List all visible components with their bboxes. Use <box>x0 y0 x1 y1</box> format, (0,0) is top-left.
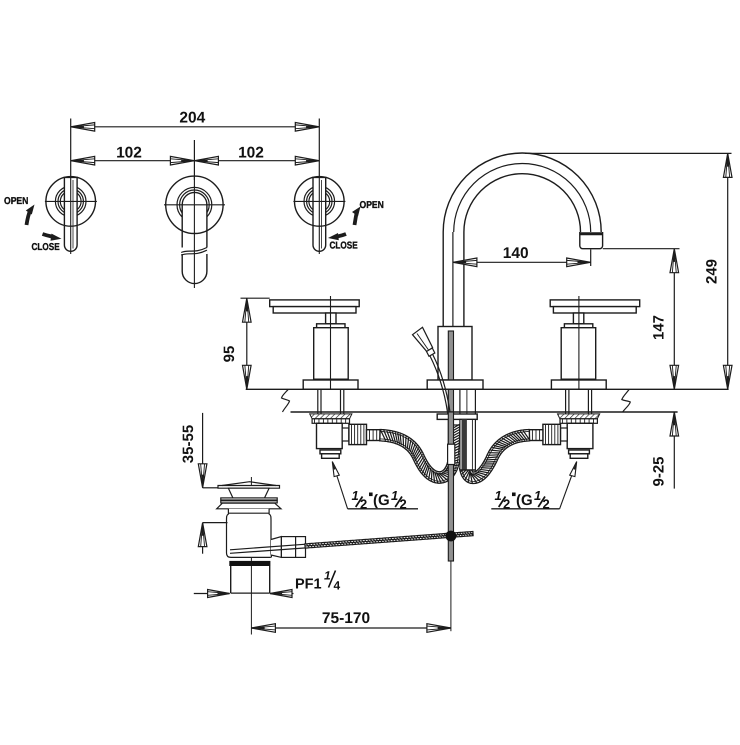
left handle body front <box>314 328 349 380</box>
lift rod <box>430 356 450 444</box>
spout riser lines inside body <box>442 327 444 381</box>
svg-text:4: 4 <box>334 579 341 593</box>
right handle stem front <box>573 313 583 324</box>
left handle valve rings top view <box>55 186 86 217</box>
dimension line 102 left <box>71 160 195 162</box>
right supply hose braided <box>460 430 530 484</box>
deck break right <box>622 389 631 412</box>
spout centerlines top view <box>164 204 225 206</box>
drain centerline <box>250 477 252 635</box>
svg-text:95: 95 <box>221 346 238 363</box>
countertop deck top line <box>246 388 729 390</box>
svg-text:OPEN: OPEN <box>360 200 384 211</box>
close arrow left <box>43 234 54 237</box>
svg-text:1: 1 <box>352 488 359 503</box>
dimension PF1 1/4 arrows <box>194 593 230 595</box>
right handle flange front <box>551 380 606 389</box>
svg-text:147: 147 <box>651 315 668 340</box>
right handle cross bar front <box>550 300 640 307</box>
dimension line 147 <box>673 249 675 390</box>
pull rod lower <box>448 412 453 561</box>
svg-text:102: 102 <box>116 145 142 162</box>
spout escutcheon top view <box>166 176 223 233</box>
left valve body <box>317 423 343 448</box>
spout outlet aerator <box>580 232 603 249</box>
right valve body <box>567 423 593 448</box>
left handle lever top view <box>64 177 77 251</box>
spout gooseneck outer arc <box>443 153 601 232</box>
right valve bottom nut <box>569 450 590 454</box>
dimension line 35-55 <box>202 413 204 486</box>
right handle lever top view <box>313 177 326 251</box>
svg-text:2: 2 <box>360 497 367 512</box>
left locknut ribs <box>312 419 349 424</box>
drain lever rod braided <box>305 532 473 549</box>
center shank through deck <box>459 389 461 414</box>
right handle escutcheon top view <box>295 177 345 227</box>
svg-text:OPEN: OPEN <box>4 196 28 207</box>
dimension line 9-25 <box>673 412 675 489</box>
svg-text:2: 2 <box>543 497 550 512</box>
left shank through deck <box>317 389 319 414</box>
svg-text:1: 1 <box>495 488 502 503</box>
right shank through deck <box>591 389 593 414</box>
close arrow right <box>337 234 347 237</box>
svg-text:CLOSE: CLOSE <box>32 242 61 253</box>
lift rod knob <box>413 327 433 352</box>
right handle collar front <box>564 324 592 328</box>
dimension line 140 <box>453 261 591 263</box>
right handle valve rings top view <box>304 186 335 217</box>
dimension line 102 right <box>194 160 319 162</box>
svg-text:9-25: 9-25 <box>651 456 668 486</box>
drain lever rod inside body <box>230 544 306 550</box>
left compression nut ribbed <box>349 424 367 444</box>
center extension line <box>193 140 195 180</box>
pull rod upper <box>448 331 453 444</box>
left locknut hatched <box>310 414 352 419</box>
extension line spout top <box>525 152 732 154</box>
center locknut below deck <box>437 414 477 419</box>
extension line outlet bottom <box>603 248 680 250</box>
pull rod centerline extension <box>450 561 452 631</box>
center supply shank <box>460 419 476 470</box>
left handle centerline <box>330 296 332 390</box>
svg-text:CLOSE: CLOSE <box>330 241 359 252</box>
right locknut hatched <box>558 414 600 419</box>
left compression fitting neck <box>342 428 349 441</box>
right locknut ribs <box>560 419 597 424</box>
spout valve rings top view <box>177 187 212 222</box>
extension line 95 top <box>241 297 270 299</box>
dimension line 249 <box>727 153 729 389</box>
right handle centerlines <box>293 200 345 202</box>
svg-text:102: 102 <box>238 145 264 162</box>
svg-text:75-170: 75-170 <box>322 610 370 627</box>
left handle cross bar front <box>270 300 360 307</box>
right hose ferrule <box>529 430 543 441</box>
label half inch left <box>348 508 418 510</box>
drain tail seal band <box>229 561 270 566</box>
drain tailpiece <box>231 566 270 593</box>
left valve bottom nut <box>320 450 341 454</box>
spout body column <box>438 327 472 381</box>
svg-text:2: 2 <box>503 497 510 512</box>
svg-text:(G: (G <box>516 492 533 509</box>
right compression fitting neck <box>561 428 568 441</box>
right handle centerline <box>578 296 580 390</box>
left supply hose braided <box>380 425 462 483</box>
spout gooseneck inner arc <box>464 174 581 232</box>
svg-text:1: 1 <box>391 488 398 503</box>
svg-text:249: 249 <box>704 259 721 284</box>
svg-text:2: 2 <box>400 497 407 512</box>
drain body <box>227 509 272 558</box>
drain cap neck <box>228 488 269 498</box>
left handle centerlines <box>45 200 97 202</box>
pull rod clevis <box>448 444 455 464</box>
svg-text:1: 1 <box>534 488 541 503</box>
right compression nut ribbed <box>543 424 561 444</box>
left handle collar front <box>317 324 345 328</box>
deck break left <box>282 389 290 412</box>
svg-text:140: 140 <box>503 245 529 262</box>
extension line 140 right <box>590 250 592 267</box>
open arrow left <box>27 210 31 226</box>
spout gooseneck middle arc <box>454 164 591 233</box>
label half inch right <box>491 508 559 510</box>
svg-text:1: 1 <box>324 569 331 583</box>
ball joint <box>446 531 457 542</box>
drain flange skirt <box>217 503 281 509</box>
spout escutcheon flange front <box>427 380 483 389</box>
drain plug cap <box>218 486 280 489</box>
svg-text:35-55: 35-55 <box>180 425 197 463</box>
drain seal rings <box>221 498 277 500</box>
open arrow right <box>355 212 358 226</box>
dimension line 95 <box>246 298 248 389</box>
left handle escutcheon top view <box>46 177 96 227</box>
left hose ferrule <box>367 430 381 441</box>
svg-text:204: 204 <box>179 110 205 127</box>
svg-text:PF1: PF1 <box>295 577 322 593</box>
dimension line 204 <box>70 119 72 177</box>
spout riser lines <box>442 232 444 327</box>
extension ticks 35-55 <box>203 487 219 489</box>
svg-text:(G: (G <box>373 492 390 509</box>
spout tube top view <box>182 192 207 283</box>
drain side port <box>271 537 281 558</box>
countertop deck bottom line <box>291 411 678 413</box>
right handle body front <box>561 328 596 380</box>
spout tube break symbol <box>181 248 208 255</box>
dimension line 75-170 <box>251 627 451 629</box>
left handle stem front <box>326 313 336 324</box>
left handle flange front <box>303 380 358 389</box>
